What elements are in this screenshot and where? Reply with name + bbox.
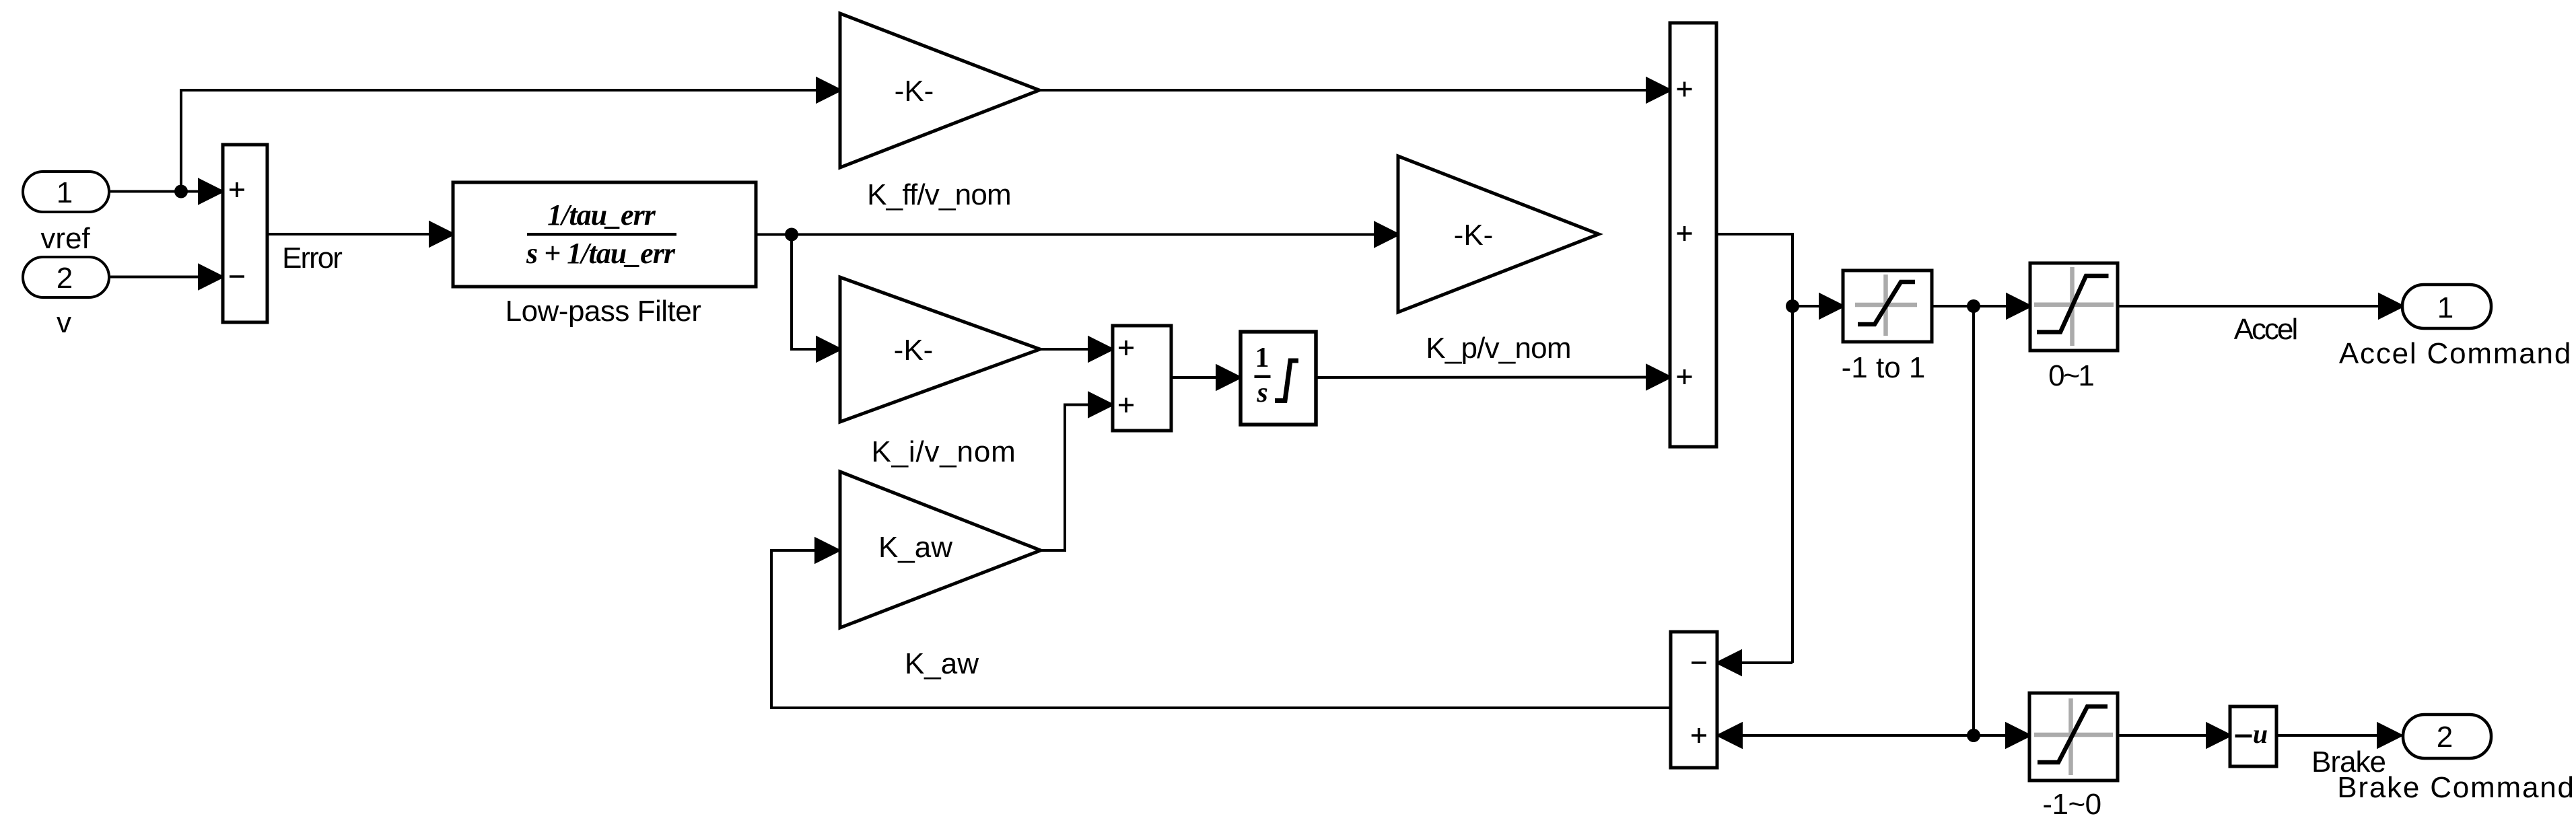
wire: pre-sat signal into Sum4 - input xyxy=(1718,651,1792,674)
node: pre-saturation junction xyxy=(1786,299,1799,313)
svg-text:-K-: -K- xyxy=(1454,219,1494,252)
svg-text:K_aw: K_aw xyxy=(878,531,952,564)
sum block Sum3 (main + + +) xyxy=(1670,23,1716,447)
gain K_aw xyxy=(840,472,1041,628)
wire: -u output to Brake Command port xyxy=(2276,724,2401,747)
svg-text:vref: vref xyxy=(40,222,90,255)
svg-text:-K-: -K- xyxy=(894,334,934,367)
svg-text:Brake Command: Brake Command xyxy=(2337,771,2575,804)
saturation block 0~1 xyxy=(2030,263,2118,351)
gain K_ff/v_nom (-K-) xyxy=(840,13,1039,168)
svg-text:1: 1 xyxy=(2437,291,2453,324)
wire: junction to saturation -1 to 1 input xyxy=(1792,295,1843,318)
gain K_p/v_nom (-K-) xyxy=(1398,156,1599,312)
svg-text:K_i/v_nom: K_i/v_nom xyxy=(871,435,1016,468)
wire: junction down to K_i gain xyxy=(792,235,840,361)
node: brake branch junction xyxy=(1967,729,1980,742)
wire: Low-pass Filter output to K_p gain xyxy=(756,223,1398,246)
svg-text:u: u xyxy=(2253,719,2268,749)
input port 2 (v) xyxy=(23,257,109,339)
wire: Sum3 output right and down to saturation -1 to 1 xyxy=(1716,234,1792,663)
svg-text:0~1: 0~1 xyxy=(2048,359,2093,392)
gain block -u (negate) xyxy=(2230,706,2276,766)
svg-text:K_ff/v_nom: K_ff/v_nom xyxy=(867,178,1011,211)
svg-text:s + 1/tau_err: s + 1/tau_err xyxy=(526,237,676,270)
wire: saturation 0~1 output to Accel Command port xyxy=(2118,295,2402,318)
svg-text:K_p/v_nom: K_p/v_nom xyxy=(1426,332,1570,365)
svg-text:K_aw: K_aw xyxy=(905,647,979,680)
svg-text:-1 to 1: -1 to 1 xyxy=(1842,351,1926,384)
svg-text:Accel: Accel xyxy=(2234,313,2297,346)
node: Accel junction xyxy=(1967,299,1980,313)
sum block Sum2 (Ki + anti-windup) xyxy=(1113,326,1171,431)
saturation block -1 to 1 xyxy=(1843,270,1932,342)
sum block Sum4 (sat - presat, flipped) xyxy=(1671,632,1717,768)
gain K_i/v_nom (-K-) xyxy=(840,277,1040,422)
wire: vref to Sum1 + input xyxy=(110,180,222,203)
wire: saturation -1 to 1 output to saturation 0~1 xyxy=(1932,295,2030,318)
sum block Sum1 (vref - v) xyxy=(223,145,267,322)
output port 1 (Accel Command) xyxy=(2402,285,2491,328)
input port 1 (vref) xyxy=(23,172,109,255)
svg-text:2: 2 xyxy=(57,262,73,295)
wire: Sum1 output (Error) to Low-pass Filter xyxy=(267,223,453,246)
wire: vref junction up and across to K_ff gain xyxy=(181,79,840,192)
wire: brake junction right to saturation -1~0 xyxy=(1974,724,2029,747)
svg-text:Error: Error xyxy=(282,242,342,275)
wire: Sum2 output to Integrator xyxy=(1171,366,1240,389)
svg-text:-K-: -K- xyxy=(895,75,934,108)
svg-text:Accel Command: Accel Command xyxy=(2339,337,2572,370)
wire: brake junction left into Sum4 + input xyxy=(1718,724,1974,747)
wire: Integrator output to Sum3 bottom + input xyxy=(1316,366,1670,389)
svg-text:Low-pass Filter: Low-pass Filter xyxy=(506,295,701,328)
svg-text:2: 2 xyxy=(2437,721,2453,754)
wire: K_i gain to Sum2 top + input xyxy=(1040,338,1112,361)
node: filter output junction xyxy=(785,228,798,242)
svg-text:v: v xyxy=(57,306,71,339)
svg-text:1: 1 xyxy=(57,176,73,209)
wire: K_aw gain output up to Sum2 bottom + input xyxy=(1041,394,1112,551)
wire: K_ff gain to Sum3 top + input xyxy=(1039,79,1670,102)
svg-text:s: s xyxy=(1256,377,1267,408)
saturation block -1~0 xyxy=(2029,693,2118,780)
svg-text:1: 1 xyxy=(1255,342,1269,373)
wire: Accel junction down to Brake branch xyxy=(1972,306,1975,735)
output port 2 (Brake Command) xyxy=(2403,715,2491,758)
transfer function block Low-pass Filter xyxy=(453,182,756,287)
node: vref junction xyxy=(174,185,188,198)
integrator block 1/s xyxy=(1241,332,1316,425)
svg-text:1/tau_err: 1/tau_err xyxy=(547,198,656,231)
wire: v to Sum1 - input xyxy=(110,266,222,289)
wire: saturation -1~0 output to -u gain xyxy=(2118,724,2230,747)
wire: Sum4 output (anti-windup) back to K_aw gain xyxy=(771,539,1671,708)
svg-text:-1~0: -1~0 xyxy=(2042,788,2101,821)
